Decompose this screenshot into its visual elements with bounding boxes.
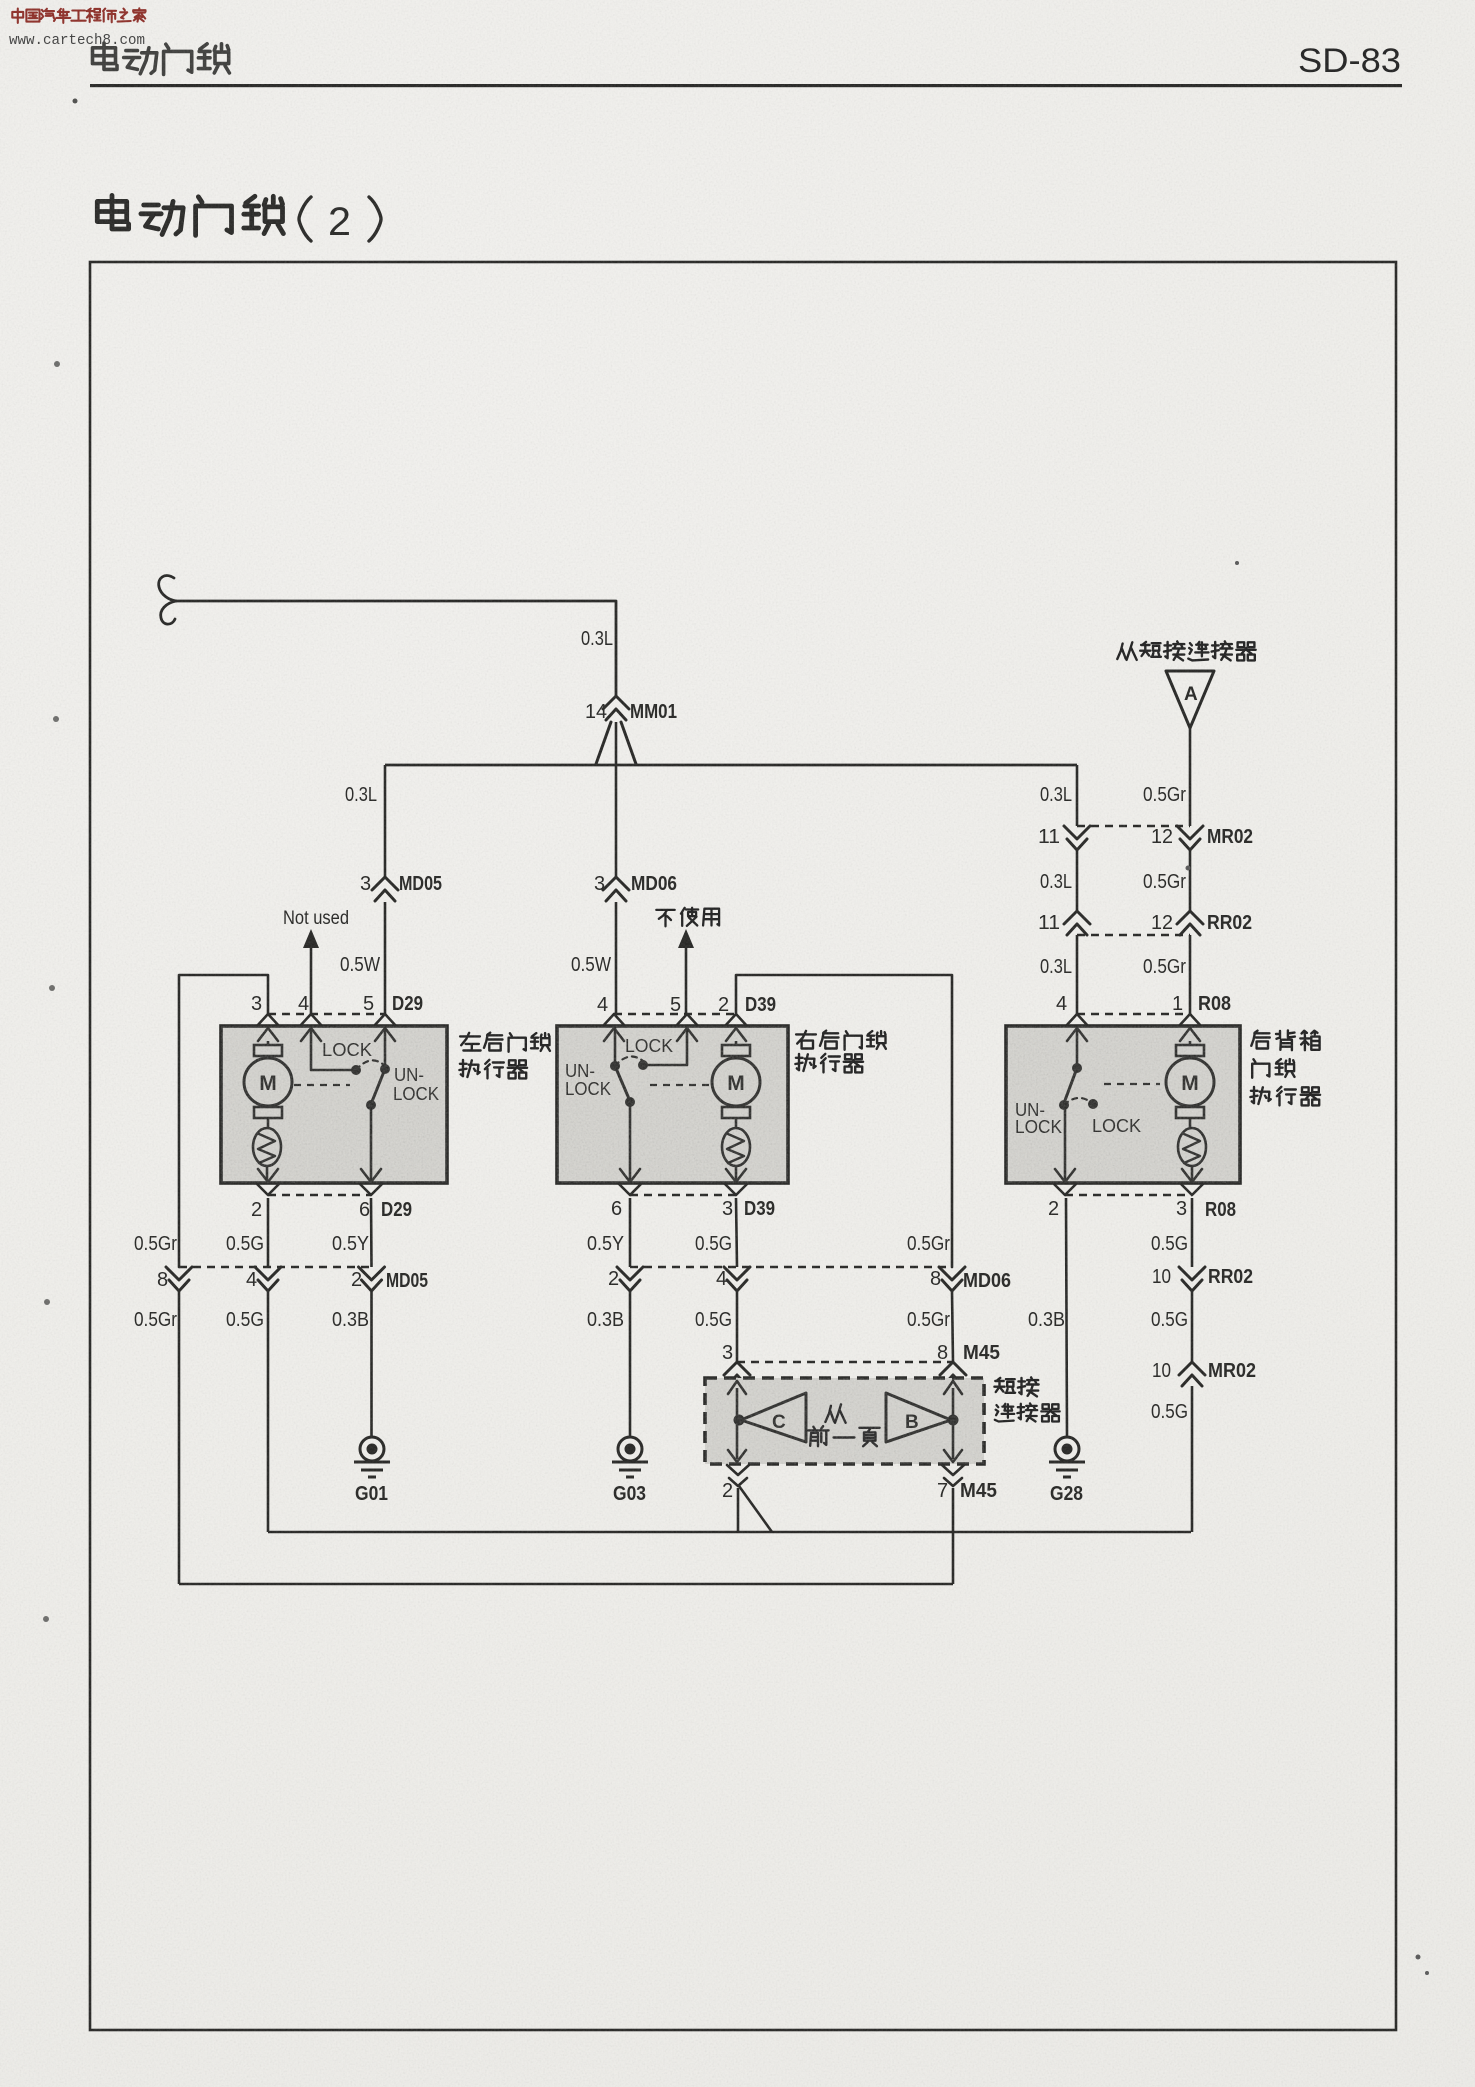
connector MR02 (pins 11,12) <box>1038 826 1253 850</box>
label LOCK (middle) <box>625 1036 673 1056</box>
triangle A (from joint connector) <box>1166 671 1214 728</box>
wire: MR02 to RR02 (11) <box>1076 851 1079 911</box>
connector MD05 (pins 8,4,2) <box>157 1267 428 1292</box>
switch (left actuator) <box>311 1028 390 1181</box>
joint connector box (dashed) <box>705 1378 984 1464</box>
label 0.3L (RR02 11) <box>1040 871 1072 893</box>
label 0.5Gr (R08 1) <box>1143 956 1186 978</box>
label 0.3B (middle ground wire) <box>587 1309 624 1331</box>
wire: RR02 to R08 (1) <box>1189 935 1192 1014</box>
arrow: not used (D39 pin 5) <box>678 929 694 1014</box>
label 0.3L (R08 4) <box>1040 956 1072 978</box>
label 0.5Gr (RR02 12) <box>1143 871 1186 893</box>
watermark url <box>9 33 145 49</box>
connector M45 top (pins 3,8) <box>722 1342 1000 1386</box>
wire: D29 pin 2 to MD05 pin 4 <box>267 1198 270 1267</box>
motor M (left actuator) <box>244 1041 292 1118</box>
tailgate lock actuator box <box>1006 1026 1240 1183</box>
thermistor (tailgate actuator) <box>1178 1117 1206 1181</box>
wire: MD06 to D39 pin 4 <box>615 902 618 1014</box>
label 0.5Gr (MR02 12) <box>1143 784 1186 806</box>
label 0.5W (left) <box>340 954 380 976</box>
box label 左后门锁执行器 <box>459 1033 550 1079</box>
ground G01 <box>354 1437 390 1505</box>
label 0.5W (middle) <box>571 954 611 976</box>
label UN-LOCK (left) <box>393 1065 439 1104</box>
connector M45 bottom (pins 2,7) <box>722 1465 997 1502</box>
label 0.3B (right ground wire) <box>1028 1309 1065 1331</box>
wire: MD05 pin 8 down <box>178 1292 181 1584</box>
motor M (tailgate actuator) <box>1166 1041 1214 1118</box>
label 0.5Gr (lower left) <box>134 1309 177 1331</box>
switch (tailgate actuator) <box>1059 1028 1098 1181</box>
wire: D39 pin 2 loop to MD06 pin 8 <box>736 975 952 1267</box>
connector MD06 (pins 2,4,8) <box>608 1267 1011 1292</box>
pin arrowheads R08 (inside box) <box>1067 1028 1200 1041</box>
label 0.5G (RR02 10) <box>1151 1309 1188 1331</box>
label 0.3B (left ground wire) <box>332 1309 369 1331</box>
label 0.5Gr (lower, M45 8) <box>907 1309 950 1331</box>
wire: A to MR02 pin 12 <box>1189 728 1192 826</box>
wire: M45 pin 8 through B <box>952 1388 955 1459</box>
wire: MR02 10 to bottom bus <box>1191 1386 1194 1532</box>
ground G28 <box>1049 1437 1085 1505</box>
wire: D29 pin 6 to MD05 pin 2 <box>370 1198 373 1267</box>
diagram title <box>97 195 381 244</box>
wire: M45 pin 7 down <box>952 1488 955 1584</box>
thermistor (right-rear actuator) <box>722 1117 750 1181</box>
wire: MD05 pin 2 to G01 <box>370 1292 373 1437</box>
label 0.3L (left) <box>345 784 377 806</box>
triangle B <box>886 1393 959 1442</box>
wire: M45 pin 2 junction <box>738 1486 772 1532</box>
connector MR02 pin 10 <box>1152 1360 1256 1386</box>
mechanical link (middle, dashed) <box>650 1084 714 1086</box>
wire: MD05 to D29 pin 5 <box>384 902 387 1014</box>
wire: MM01 fan-out <box>596 722 636 877</box>
switch (right-rear actuator) <box>610 1028 687 1181</box>
label 0.3L (MR02 11) <box>1040 784 1072 806</box>
pin arrowheads M45 (inside box) <box>728 1381 962 1462</box>
wire: distribution bus <box>385 764 1077 767</box>
header rule <box>90 84 1402 87</box>
watermark logo text (red) <box>12 8 145 23</box>
label 0.5G (upper middle) <box>695 1233 732 1255</box>
box label 后背箱门锁执行器 <box>1250 1030 1320 1105</box>
page header text <box>93 43 230 74</box>
label UN-LOCK (right) <box>1015 1100 1062 1137</box>
wire: D39 pin 6 to MD06 pin 2 <box>629 1198 632 1267</box>
mechanical link (right, dashed) <box>1104 1083 1160 1085</box>
connector D29 bottom (pins 2,6) <box>251 1169 412 1221</box>
connector MD06 pin 3 <box>594 873 677 901</box>
paper grain overlay <box>221 1026 447 1183</box>
wire: MD06 pin 4 to M45 pin 3 <box>736 1292 739 1362</box>
triangle C <box>734 1393 807 1442</box>
wire: R08 pin 2 to G28 <box>1066 1198 1067 1437</box>
label 0.5Gr (upper, MD06 8) <box>907 1233 950 1255</box>
connector D29 top (pins 3,4,5) <box>251 993 423 1026</box>
label 0.5G (R08 3) <box>1151 1233 1188 1255</box>
connector RR02 pin 10 <box>1152 1266 1253 1291</box>
wire: M45 pin 3 through C <box>736 1388 739 1459</box>
label 从短接连接器 <box>1117 641 1255 660</box>
label 0.5G (MR02 10) <box>1151 1401 1188 1423</box>
label 0.3L (feed) <box>581 628 613 650</box>
connector D39 bottom (pins 6,3) <box>611 1169 775 1220</box>
wire: bottom bus (lock feed) <box>268 1531 1191 1534</box>
connector MM01 pin 14 <box>585 696 677 723</box>
label 不使用 <box>656 908 719 927</box>
pin arrowheads D39 (inside box) <box>604 1028 746 1041</box>
label LOCK (left) <box>322 1040 372 1060</box>
wire: bottom bus (unlock feed) <box>179 1583 953 1586</box>
right rear door lock actuator box <box>557 1026 788 1183</box>
box label 短接连接器 <box>994 1377 1059 1421</box>
wire: MD06 pin 8 to M45 pin 8 <box>952 1292 953 1362</box>
connector D39 top (pins 4,5,2) <box>597 994 776 1026</box>
label UN-LOCK (middle) <box>565 1061 611 1099</box>
wire: MD05 pin 4 down <box>267 1292 270 1532</box>
wire: MD06 pin 2 to G03 <box>629 1292 632 1437</box>
box label 右后门锁执行器 <box>795 1031 886 1073</box>
wire: RR02 10 to MR02 10 <box>1191 1292 1194 1362</box>
wire: MM01 to MD06 <box>615 876 618 879</box>
connector RR02 (pins 11,12) <box>1038 911 1252 935</box>
label 0.5G (lower mid-left) <box>226 1309 264 1331</box>
ground G03 <box>612 1437 648 1505</box>
thermistor (left actuator) <box>253 1117 281 1181</box>
connector R08 bottom (pins 2,3) <box>1048 1169 1236 1221</box>
label LOCK (right) <box>1092 1116 1141 1136</box>
wire: D29 pin 3 loop to MD05 pin 8 <box>179 975 268 1267</box>
pin arrowheads D29 (inside box) <box>258 1028 395 1041</box>
label 从前一页 <box>808 1404 879 1446</box>
outer border <box>90 262 1396 2030</box>
wire: bus to MR02 pin 11 <box>1076 765 1079 826</box>
wire: RR02 to R08 (4) <box>1076 935 1079 1014</box>
arrow: not used (D29 pin 4) <box>303 929 319 1014</box>
wire: top feed with curl <box>159 576 616 696</box>
label 0.5Gr (upper left) <box>134 1233 177 1255</box>
mechanical link (left, dashed) <box>294 1084 350 1086</box>
wire: bus to MD05 <box>384 765 387 877</box>
connector R08 top (pins 4,1) <box>1056 993 1231 1026</box>
motor M (right-rear actuator) <box>712 1041 760 1118</box>
page number SD-83 <box>1298 42 1401 80</box>
wire: MR02 to RR02 (12) <box>1189 851 1192 911</box>
label 0.5G (upper mid-left) <box>226 1233 264 1255</box>
wire: R08 pin 3 to RR02 pin 10 <box>1191 1198 1194 1267</box>
left rear door lock actuator box <box>221 1026 447 1183</box>
label 0.5Y (upper middle) <box>587 1233 624 1255</box>
wire: D39 pin 3 to MD06 pin 4 <box>736 1198 737 1267</box>
connector MD05 pin 3 <box>360 873 442 901</box>
label Not used <box>283 907 349 929</box>
label 0.5Y (upper) <box>332 1233 369 1255</box>
label 0.5G (lower middle) <box>695 1309 732 1331</box>
